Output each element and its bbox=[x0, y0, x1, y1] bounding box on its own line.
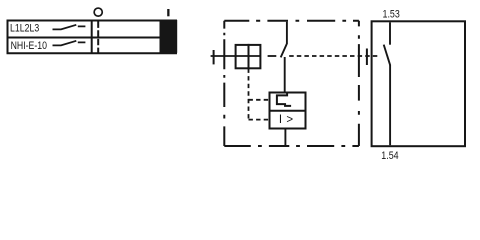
O position marker bbox=[94, 8, 102, 16]
main contact symbol row 1 bbox=[53, 25, 86, 30]
I position handle block bbox=[160, 20, 178, 53]
breaker enclosure left border (dash-dot) bbox=[223, 21, 225, 146]
mechanical linkage dashed bbox=[289, 55, 379, 57]
mechanical linkage dashed (first dash) bbox=[268, 55, 277, 57]
conductor exit below overload box bbox=[284, 129, 286, 147]
main contact blade bbox=[281, 44, 287, 58]
svg-text:1.53: 1.53 bbox=[383, 9, 400, 21]
thermal element hook bbox=[277, 92, 291, 106]
svg-text:1.54: 1.54 bbox=[381, 150, 398, 162]
overload relay box divider bbox=[270, 110, 306, 112]
main contact symbol row 2 bbox=[53, 41, 86, 46]
right terminal tick bbox=[366, 49, 368, 66]
switch position table frame bbox=[7, 20, 178, 54]
aux contact upper terminal bbox=[389, 22, 391, 44]
left terminal tick bbox=[213, 50, 215, 64]
breaker enclosure top border (dash-dot) bbox=[224, 20, 359, 22]
svg-text:L1L2L3: L1L2L3 bbox=[10, 23, 39, 35]
breaker enclosure right border (dash-dot) bbox=[358, 21, 360, 146]
aux contact blade bbox=[384, 45, 391, 66]
I position marker bbox=[167, 9, 169, 16]
table divider line bbox=[91, 20, 93, 54]
thermal trip linkage dashed bbox=[249, 99, 270, 101]
operating mechanism square bbox=[236, 45, 261, 68]
svg-text:I>: I> bbox=[279, 114, 294, 126]
breaker enclosure bottom border (dash-dot) bbox=[224, 145, 359, 147]
operating mechanism cross line bbox=[248, 44, 250, 69]
auxiliary contact enclosure bbox=[372, 21, 465, 146]
magnetic trip linkage dashed bbox=[249, 119, 270, 121]
O position dashed line bbox=[97, 22, 99, 54]
overload relay box bbox=[270, 93, 306, 129]
left supply conductor bbox=[211, 55, 261, 57]
aux contact lower terminal bbox=[389, 65, 391, 145]
main contact upper terminal bbox=[286, 22, 288, 44]
svg-text:NHI-E-10: NHI-E-10 bbox=[11, 40, 47, 52]
trip linkage vertical dashed bbox=[248, 69, 250, 120]
conductor to overload relay bbox=[284, 57, 286, 93]
